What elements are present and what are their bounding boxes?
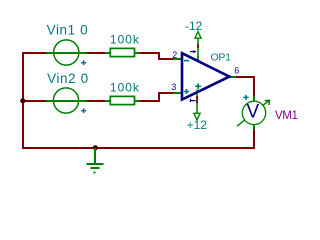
wire R2 to op-amp pin 3 xyxy=(140,93,173,101)
wire Vin2 to R2 xyxy=(87,100,105,102)
svg-text:Vin1 0: Vin1 0 xyxy=(47,22,89,37)
svg-text:-12: -12 xyxy=(185,19,203,33)
svg-text:OP1: OP1 xyxy=(211,52,232,64)
-12 supply pin inner segment xyxy=(197,56,199,61)
Vin1 polarity + xyxy=(81,60,86,65)
voltmeter VM1 body xyxy=(242,96,265,130)
wire left rail xyxy=(22,53,24,148)
op-amp top power arrow xyxy=(190,50,197,53)
op-amp non-inverting input mark + xyxy=(184,89,189,94)
resistor R1 100k xyxy=(105,48,140,56)
svg-text:6: 6 xyxy=(234,65,239,75)
op-amp OP1 triangle outline xyxy=(182,53,229,99)
Vin2 polarity + xyxy=(81,108,86,113)
svg-text:100k: 100k xyxy=(110,33,140,47)
op-amp OP1 triangle body xyxy=(182,53,229,99)
svg-text:+12: +12 xyxy=(187,118,208,132)
op-amp inverting input mark - xyxy=(184,60,189,62)
wire Vin1 row left xyxy=(22,52,46,54)
voltmeter polarity + xyxy=(243,95,248,100)
wire R1 to op-amp pin 2 xyxy=(140,53,173,59)
svg-text:V: V xyxy=(247,102,260,123)
wire Vin2 row left xyxy=(22,100,46,102)
ground xyxy=(86,148,103,173)
svg-text:3: 3 xyxy=(171,82,176,92)
wire Vin1 to R1 xyxy=(87,52,105,54)
junction node A (left rail / Vin2) xyxy=(20,98,25,103)
-12 supply arrowhead xyxy=(195,32,201,39)
voltmeter VM1 arrow xyxy=(237,100,270,126)
svg-text:100k: 100k xyxy=(110,81,140,95)
voltage source Vin1 xyxy=(46,40,87,65)
svg-text:VM1: VM1 xyxy=(275,110,297,122)
wire voltmeter to bottom rail xyxy=(22,129,254,148)
op-amp bottom power mark xyxy=(190,99,195,102)
junction node B (bottom rail / ground) xyxy=(93,145,98,150)
voltage source Vin2 xyxy=(46,88,87,113)
wire op-amp output to voltmeter xyxy=(236,77,254,96)
+12 supply pin line xyxy=(196,92,198,114)
op-amp U1 pin stubs xyxy=(173,59,236,93)
+12 supply arrowhead xyxy=(194,113,200,120)
svg-text:Vin2 0: Vin2 0 xyxy=(47,71,89,86)
op-amp positive supply mark + xyxy=(195,83,201,89)
resistor R2 100k xyxy=(105,96,140,104)
+12 supply pin inner segment xyxy=(196,90,198,95)
svg-text:2: 2 xyxy=(172,50,177,60)
-12 supply pin line xyxy=(197,38,199,61)
